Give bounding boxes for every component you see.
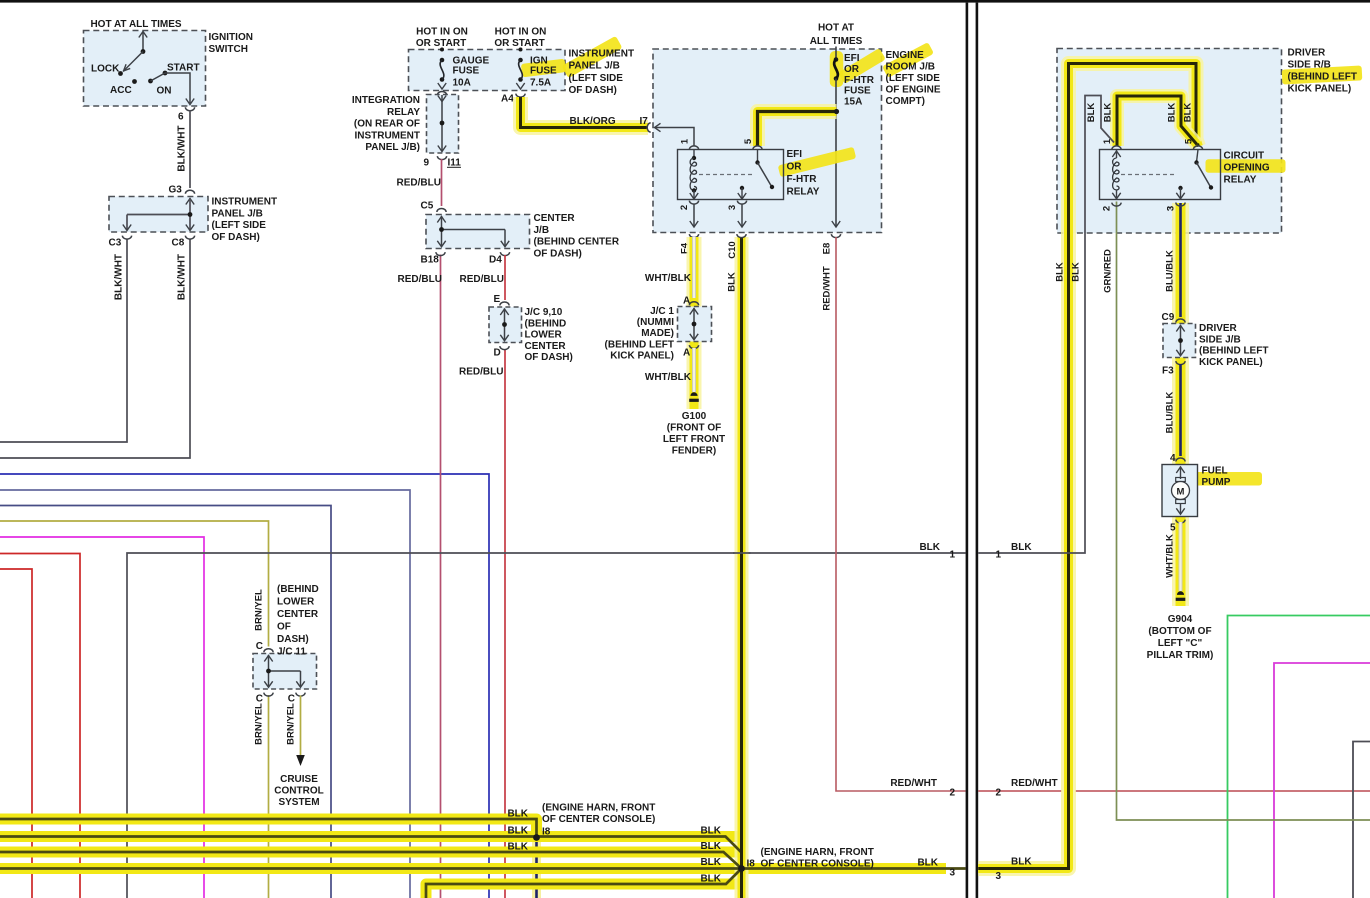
vertical BLK band of C10 wire through ground bus junction I8 (735, 237, 749, 898)
svg-text:F-HTR: F-HTR (787, 174, 818, 185)
svg-text:ACC: ACC (110, 85, 132, 96)
svg-text:E: E (494, 294, 501, 305)
svg-text:J/C 1: J/C 1 (650, 306, 674, 317)
driver side R/B box (1057, 49, 1282, 234)
wire navy-slate feeder from left edge turning down (0, 506, 331, 898)
svg-text:M: M (1177, 486, 1185, 497)
svg-text:ENGINE: ENGINE (886, 50, 925, 61)
svg-text:J/B: J/B (534, 225, 550, 236)
wire BLK net 3 right panel rising through R/B to relay pin 5 (outer) yellow band (978, 64, 1198, 869)
contact dot LOCK (118, 71, 123, 76)
svg-text:DASH): DASH) (277, 634, 309, 645)
instrument panel J/B fuse box (409, 50, 566, 91)
wire WHT/BLK lower segment (692, 348, 696, 392)
svg-text:CENTER: CENTER (277, 609, 319, 620)
connector D bump below J/C 9,10 (500, 346, 509, 350)
svg-text:4: 4 (1170, 453, 1176, 464)
svg-text:1: 1 (996, 550, 1002, 561)
connector C10 bump (737, 234, 746, 237)
svg-text:2: 2 (1102, 206, 1113, 211)
wire from HOT AT ALL TIMES down to EFI fuse (835, 47, 837, 61)
svg-text:LEFT "C": LEFT "C" (1158, 638, 1203, 649)
svg-text:I8: I8 (542, 827, 551, 838)
svg-text:LOWER: LOWER (525, 330, 563, 341)
ignition switch box (84, 31, 206, 107)
integration relay box (427, 95, 459, 154)
svg-text:BLK: BLK (700, 841, 721, 852)
svg-text:J/C 11: J/C 11 (277, 647, 306, 658)
svg-text:RED/WHT: RED/WHT (1011, 778, 1058, 789)
svg-text:DRIVER: DRIVER (1288, 48, 1327, 59)
svg-text:BLK: BLK (1071, 262, 1082, 282)
svg-text:LOCK: LOCK (91, 64, 120, 75)
svg-text:PILLAR TRIM): PILLAR TRIM) (1147, 650, 1214, 661)
svg-text:OF DASH): OF DASH) (525, 352, 573, 363)
wire BLK/ORG A4 to I7 yellow highlight band (521, 97, 649, 128)
wire gray feeder from right edge down to page bottom (1353, 742, 1370, 898)
svg-text:E8: E8 (822, 243, 833, 255)
svg-text:C: C (288, 694, 295, 705)
wire BLK stub rising from page bottom to ground bus 5 corner (421, 884, 432, 898)
ground G100 symbol (690, 392, 697, 396)
svg-text:PANEL J/B: PANEL J/B (212, 208, 263, 219)
wire C10 BLK core from EFI relay down through junction I8 to page bottom (740, 237, 743, 898)
svg-text:BLK: BLK (919, 542, 940, 553)
svg-text:OR START: OR START (494, 38, 544, 49)
ground bus BLK wire 4 yellow band to panel border as net 3 (0, 863, 946, 874)
svg-text:MADE): MADE) (641, 328, 674, 339)
svg-text:EFI: EFI (844, 53, 860, 64)
wire thick BLK jumper fuse junction to relay pin 5 with yellow highlight (758, 112, 837, 147)
yellow swoosh over EFI fuse symbol (830, 51, 844, 87)
circuit opening relay box (1100, 150, 1221, 200)
wire blue feeder from left edge turning down (0, 474, 489, 898)
svg-text:3: 3 (727, 205, 738, 210)
connector G3 bump (185, 190, 194, 193)
svg-text:BLK/WHT: BLK/WHT (177, 254, 188, 300)
svg-text:CIRCUIT: CIRCUIT (1224, 151, 1265, 162)
wire BLK gray riser: up from page bottom, right to panel border as net 1 (127, 553, 966, 898)
svg-text:C5: C5 (421, 201, 434, 212)
contact dot START (163, 71, 168, 76)
svg-text:FUEL: FUEL (1202, 466, 1228, 477)
svg-text:INTEGRATION: INTEGRATION (352, 95, 420, 106)
svg-text:DRIVER: DRIVER (1199, 323, 1238, 334)
svg-text:ON: ON (157, 86, 172, 97)
junction dot on main feed at jumper (834, 109, 839, 114)
svg-text:RED/BLU: RED/BLU (398, 274, 442, 285)
svg-text:3: 3 (1166, 206, 1177, 211)
svg-text:BRN/YEL: BRN/YEL (286, 703, 297, 745)
svg-text:OF ENGINE: OF ENGINE (886, 85, 941, 96)
connector C3 bump (122, 236, 131, 240)
driver side J/B internal wire (1176, 326, 1184, 332)
junction dot in instrument panel J/B (188, 212, 193, 217)
svg-text:SYSTEM: SYSTEM (278, 797, 319, 808)
svg-text:HOT AT ALL TIMES: HOT AT ALL TIMES (90, 19, 181, 30)
svg-text:BLK: BLK (700, 857, 721, 868)
svg-text:BLK: BLK (1103, 103, 1114, 123)
svg-text:FUSE: FUSE (844, 86, 871, 97)
wire GRN/RED from relay pin 2 down and right to page edge (1117, 202, 1370, 821)
svg-text:(ON REAR OF: (ON REAR OF (354, 119, 420, 130)
svg-text:(BEHIND LEFT: (BEHIND LEFT (1199, 346, 1268, 357)
svg-text:BLK: BLK (507, 826, 528, 837)
svg-text:10A: 10A (453, 77, 471, 88)
svg-text:(LEFT SIDE: (LEFT SIDE (886, 73, 941, 84)
fuel pump motor symbol (1176, 467, 1184, 473)
ground bus BLK wire 5 yellow band (426, 884, 742, 898)
svg-text:PANEL J/B: PANEL J/B (569, 61, 620, 72)
svg-text:PUMP: PUMP (1202, 477, 1231, 488)
yellow highlight blob over IGN FUSE label (521, 59, 566, 78)
wire internal from I7 to relay pin 1 (655, 123, 661, 131)
connector F3 bump (1176, 361, 1185, 364)
top page border bar (0, 0, 1370, 3)
svg-text:(ENGINE HARN, FRONT: (ENGINE HARN, FRONT (761, 847, 874, 858)
junction connector J/C 11 box (253, 654, 317, 690)
svg-text:SIDE R/B: SIDE R/B (1288, 60, 1331, 71)
svg-text:(NUMMI: (NUMMI (637, 317, 674, 328)
svg-text:C10: C10 (727, 241, 738, 258)
wire RED/WHT E8 down and right to panel border as net 2 (836, 237, 966, 791)
svg-text:BLK/WHT: BLK/WHT (177, 125, 188, 171)
svg-text:(BEHIND: (BEHIND (525, 318, 567, 329)
ground bus BLK wire 4 core straight through junction to panel border (0, 867, 966, 870)
fuse EFI OR F-HTR FUSE 15A (thick) (834, 57, 839, 62)
EFI or F-HTR relay box (678, 150, 784, 200)
svg-text:G3: G3 (169, 185, 183, 196)
svg-text:ROOM J/B: ROOM J/B (886, 62, 935, 73)
engine room J/B box (653, 49, 882, 233)
svg-text:C3: C3 (109, 238, 122, 249)
svg-text:F3: F3 (1162, 366, 1174, 377)
svg-text:SIDE J/B: SIDE J/B (1199, 334, 1241, 345)
svg-text:G904: G904 (1168, 614, 1193, 625)
right panel left border (976, 3, 979, 898)
left panel right border (966, 3, 969, 898)
relay switch contacts (757, 150, 759, 163)
svg-text:BLK: BLK (917, 858, 938, 869)
svg-text:(BEHIND LEFT: (BEHIND LEFT (1288, 72, 1357, 83)
driver side J/B box (1163, 324, 1196, 358)
svg-text:WHT/BLK: WHT/BLK (1165, 534, 1176, 578)
svg-text:G100: G100 (682, 411, 707, 422)
connector B18 bump (436, 252, 445, 256)
svg-text:FUSE: FUSE (453, 65, 480, 76)
connector 6 bump (185, 107, 194, 110)
connector C bump below J/C 11 right (296, 693, 305, 697)
wire WHT/BLK F4 to G100 yellow band (687, 237, 702, 409)
svg-text:(ENGINE HARN, FRONT: (ENGINE HARN, FRONT (542, 803, 655, 814)
wire from START contact right and down to connector 6 (165, 73, 190, 103)
svg-text:INSTRUMENT: INSTRUMENT (212, 197, 278, 208)
svg-text:RELAY: RELAY (787, 187, 820, 198)
ignition switch pivot dot (141, 49, 146, 54)
svg-text:(BEHIND LEFT: (BEHIND LEFT (605, 340, 674, 351)
ground bus BLK wire 5 core with diagonal up into junction I8 (426, 869, 742, 898)
svg-text:CENTER: CENTER (525, 341, 567, 352)
wire BLK/ORG core (521, 97, 647, 128)
center J/B box (426, 215, 530, 249)
junction connector J/C 9,10 box (489, 307, 522, 343)
wire RED/BLU integration relay to C5 (441, 159, 443, 206)
connector F4 bump (689, 234, 698, 237)
svg-text:OF DASH): OF DASH) (212, 232, 260, 243)
svg-text:EFI: EFI (787, 149, 803, 160)
svg-text:BLK: BLK (507, 842, 528, 853)
connector pin 5 bump fuel pump (1176, 520, 1185, 523)
yellow swoosh over EFI OR F-HTR RELAY label (778, 147, 857, 178)
svg-text:RED/WHT: RED/WHT (822, 266, 833, 311)
svg-text:BLK/ORG: BLK/ORG (570, 116, 616, 127)
contact dot ON (148, 79, 153, 84)
J/C 9,10 internal wire (500, 309, 508, 315)
ignition switch feed wire with up arrow (142, 33, 144, 52)
svg-text:7.5A: 7.5A (530, 77, 551, 88)
svg-text:BLK: BLK (1086, 103, 1097, 123)
yellow swoosh over INSTRUMENT PANEL J/B label (561, 36, 622, 78)
svg-text:2: 2 (950, 788, 956, 799)
svg-text:1: 1 (950, 550, 956, 561)
svg-text:KICK PANEL): KICK PANEL) (1288, 84, 1352, 95)
ground bus BLK wire 1 core with corner down to junction I8 (0, 819, 537, 838)
svg-text:BLK: BLK (1167, 103, 1178, 123)
svg-text:HOT IN ON: HOT IN ON (416, 27, 468, 38)
relay pin 1 bump (689, 146, 698, 149)
connector C bump above J/C 11 (264, 649, 273, 653)
ground bus BLK wire 3 core with diagonal into junction I8 at C10 (0, 852, 742, 869)
svg-text:J/C 9,10: J/C 9,10 (525, 307, 563, 318)
svg-text:BLK: BLK (1183, 103, 1194, 123)
wire BLK inner loop pin 1 to pin 5 yellow band (1117, 96, 1197, 146)
connector C9 bump (1176, 319, 1185, 322)
svg-text:C: C (256, 641, 263, 652)
relay pin 1 bump right panel (1112, 146, 1121, 149)
svg-text:(LEFT SIDE: (LEFT SIDE (569, 73, 624, 84)
svg-text:BLK: BLK (727, 272, 738, 292)
svg-text:OF DASH): OF DASH) (569, 85, 617, 96)
wire BLK gray net 1 right panel to relay pin 1 (978, 96, 1114, 554)
svg-text:BLK: BLK (700, 826, 721, 837)
svg-text:1: 1 (1102, 138, 1113, 144)
wire BLU/BLK core F3 to fuel pump pin 4 (1179, 364, 1182, 456)
svg-text:RED/WHT: RED/WHT (890, 778, 937, 789)
svg-text:WHT/BLK: WHT/BLK (645, 273, 692, 284)
relay pin 2 bump right panel (1112, 203, 1121, 206)
wire RED/BLU from B18 down to page bottom (440, 255, 442, 898)
svg-text:3: 3 (950, 868, 956, 879)
svg-text:A: A (683, 348, 690, 359)
svg-text:BRN/YEL: BRN/YEL (254, 703, 265, 745)
connector E bump (500, 302, 509, 306)
svg-text:OR: OR (787, 162, 803, 173)
svg-text:2: 2 (679, 205, 690, 210)
svg-text:START: START (167, 63, 200, 74)
fuse GAUGE FUSE 10A (440, 48, 444, 52)
center J/B internal wires (437, 217, 445, 223)
wire BLU/BLK relay pin 3 to C9 yellow band (1172, 203, 1189, 606)
contact dot ACC (132, 79, 137, 84)
J/C 11 internal wires (264, 656, 272, 662)
yellow bar over OPENING label (1206, 159, 1286, 173)
svg-text:CRUISE: CRUISE (280, 774, 318, 785)
ground bus BLK wire 2 core with diagonal into junction I8 at C10 (0, 837, 742, 869)
svg-text:FENDER): FENDER) (672, 446, 716, 457)
relay pin 3 bump right panel (1176, 203, 1185, 206)
svg-text:BLK: BLK (1055, 262, 1066, 282)
svg-text:OF CENTER CONSOLE): OF CENTER CONSOLE) (761, 859, 874, 870)
label ENGINE ROOM J/B (LEFT SIDE OF ENGINE COMPT) (882, 42, 934, 78)
svg-text:BLU/BLK: BLU/BLK (1165, 250, 1176, 292)
svg-text:OR: OR (844, 64, 860, 75)
connector 9 bump below integration relay (437, 156, 446, 160)
svg-text:COMPT): COMPT) (886, 96, 925, 107)
svg-text:C9: C9 (1162, 312, 1175, 323)
svg-text:B18: B18 (421, 255, 440, 266)
feed stubs into fuse J/B (441, 48, 443, 60)
svg-text:SWITCH: SWITCH (209, 44, 248, 55)
connector bump from gauge fuse into integration relay (437, 92, 446, 96)
relay pin 5 bump (753, 146, 762, 150)
svg-text:BLU/BLK: BLU/BLK (1165, 392, 1176, 434)
svg-text:CENTER: CENTER (534, 213, 576, 224)
wire RED/BLU from D connector down to page bottom (504, 350, 506, 898)
svg-text:(FRONT OF: (FRONT OF (667, 423, 721, 434)
svg-text:1: 1 (680, 138, 691, 144)
svg-text:OR START: OR START (416, 38, 466, 49)
connector E8 bump (831, 234, 840, 238)
svg-text:KICK PANEL): KICK PANEL) (610, 351, 674, 362)
svg-text:C: C (256, 694, 263, 705)
ground bus BLK wire 3 yellow band (0, 847, 742, 858)
svg-text:ALL TIMES: ALL TIMES (810, 36, 863, 47)
svg-text:(BEHIND: (BEHIND (277, 584, 319, 595)
svg-text:PANEL J/B): PANEL J/B) (365, 142, 420, 153)
connector D4 bump (500, 252, 509, 256)
wire BLK/WHT from C8 down and left to page edge (0, 239, 190, 459)
svg-text:RELAY: RELAY (1224, 175, 1257, 186)
J/C 1 internal wire (690, 309, 698, 315)
svg-text:5: 5 (743, 138, 754, 144)
relay pin 5 bump right panel (1193, 146, 1202, 150)
svg-text:RED/BLU: RED/BLU (397, 178, 441, 189)
wire slate-blue feeder from left edge turning down (0, 490, 410, 898)
wire BLK/WHT ignition to G3 (189, 110, 191, 188)
gray net 1 overdraw across C10 band (733, 552, 751, 554)
svg-text:HOT AT: HOT AT (818, 23, 854, 34)
connector C8 bump (185, 236, 194, 239)
wire BLK/WHT from C3 down and left to page edge (0, 239, 127, 443)
svg-text:C8: C8 (172, 238, 185, 249)
wires relay pins to J/B bottom edge (693, 204, 695, 227)
svg-text:BLK: BLK (507, 809, 528, 820)
wire magenta feeder from right edge down to page bottom (1274, 663, 1370, 898)
svg-text:LEFT FRONT: LEFT FRONT (663, 434, 725, 445)
svg-text:OPENING: OPENING (1224, 163, 1270, 174)
relay pin 3 bump (737, 201, 746, 205)
label DRIVER SIDE R/B (BEHIND LEFT KICK PANEL) (1282, 65, 1363, 84)
wire RED/WHT net 2 across right panel (split at highlighted band) (978, 790, 1062, 792)
svg-text:KICK PANEL): KICK PANEL) (1199, 357, 1263, 368)
junction I8 dot on ground bus at C10 (738, 865, 745, 872)
wire from ON dot to START dot (151, 73, 166, 81)
instrument panel J/B box left (109, 197, 208, 233)
svg-text:3: 3 (996, 871, 1002, 882)
svg-text:GRN/RED: GRN/RED (1103, 249, 1114, 293)
ground bus BLK wire 2 yellow band (0, 831, 742, 842)
connector C bump below J/C 11 left (264, 693, 273, 697)
svg-text:INSTRUMENT: INSTRUMENT (354, 130, 420, 141)
svg-text:WHT/BLK: WHT/BLK (645, 372, 692, 383)
ground bus BLK wire 1 yellow band (0, 819, 537, 838)
svg-text:6: 6 (178, 112, 184, 123)
svg-text:F-HTR: F-HTR (844, 75, 875, 86)
relay internal dashed link (699, 174, 753, 176)
svg-text:LOWER: LOWER (277, 597, 315, 608)
integration relay internal wire (438, 96, 446, 102)
wire red feeder 2 from left edge turning down (0, 569, 32, 898)
connector C5 bump (437, 209, 446, 213)
connector A bump below J/C 1 (689, 345, 698, 348)
svg-text:RED/BLU: RED/BLU (460, 274, 504, 285)
svg-text:9: 9 (423, 158, 429, 169)
svg-text:RELAY: RELAY (387, 107, 420, 118)
svg-text:BLK/WHT: BLK/WHT (114, 254, 125, 300)
svg-text:INSTRUMENT: INSTRUMENT (569, 49, 635, 60)
relay coil with terminal dots (693, 150, 695, 159)
svg-text:CONTROL: CONTROL (274, 786, 323, 797)
relay pin 3 bump redrawn over band (1176, 203, 1185, 206)
connector A bump above J/C 1 (689, 302, 698, 305)
svg-text:2: 2 (996, 788, 1002, 799)
svg-text:BLK: BLK (1011, 542, 1032, 553)
circuit opening relay dashed link (1121, 174, 1177, 176)
J/B internal wire from G3 with junction to C3 and C8 (186, 199, 194, 205)
svg-text:15A: 15A (844, 97, 862, 108)
svg-text:OF DASH): OF DASH) (534, 248, 582, 259)
svg-text:5: 5 (1170, 523, 1176, 534)
svg-text:HOT IN ON: HOT IN ON (495, 27, 547, 38)
wire BRN/YEL from J/C 11 left output down to page bottom (268, 695, 270, 898)
relay pin 2 bump (689, 201, 698, 204)
fuel pump box (1162, 465, 1198, 517)
svg-text:D4: D4 (489, 255, 502, 266)
svg-text:BLK: BLK (700, 874, 721, 885)
wire WHT/BLK core (white wire) (692, 237, 696, 298)
wire BRN/YEL feeder from left edge to J/C 11 (0, 521, 269, 647)
wire magenta feeder from left edge turning down (0, 537, 204, 898)
svg-text:BLK: BLK (1011, 857, 1032, 868)
svg-text:RED/BLU: RED/BLU (459, 367, 503, 378)
svg-text:OF CENTER CONSOLE): OF CENTER CONSOLE) (542, 814, 655, 825)
junction dot in J/C 11 (266, 669, 271, 674)
connector pin 4 bump fuel pump (1176, 458, 1185, 461)
svg-text:(BEHIND CENTER: (BEHIND CENTER (534, 237, 620, 248)
connector I7 bump at engine room J/B edge (647, 123, 651, 132)
wire red feeder 1 from left edge turning down (0, 554, 80, 898)
connector A4 bump below IGN fuse (516, 94, 525, 97)
svg-text:D: D (494, 348, 501, 359)
yellow bar over PUMP label (1195, 472, 1262, 486)
fuse IGN FUSE 7.5A (519, 48, 523, 52)
svg-text:(BOTTOM OF: (BOTTOM OF (1148, 626, 1211, 637)
ground G904 symbol (1177, 591, 1184, 595)
junction dot in center J/B (439, 227, 444, 232)
svg-text:I8: I8 (747, 859, 756, 870)
wire BLU/BLK core pin3 to C9 (1179, 203, 1182, 317)
wire navy drop below ground-junction I8 (shows as dashes through bands) (532, 840, 541, 898)
